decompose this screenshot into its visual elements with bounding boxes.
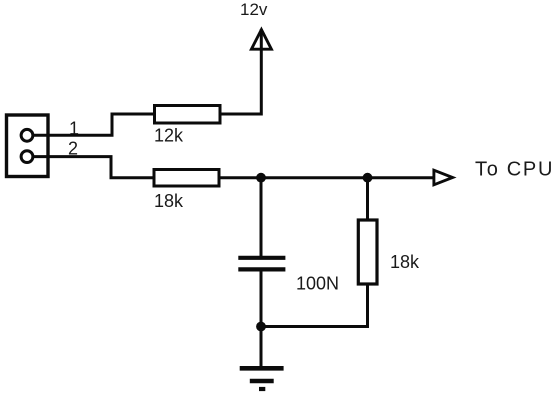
node junction at ground net <box>256 322 266 332</box>
connector J1 body <box>7 115 49 177</box>
ground symbol <box>240 368 284 389</box>
resistor R3 18k body <box>358 220 377 284</box>
svg-text:100N: 100N <box>296 274 339 294</box>
output arrow To CPU <box>434 170 453 185</box>
wire R1 right lead to 12v rail <box>220 29 261 114</box>
wire R2 right lead to output arrow <box>219 176 434 179</box>
wire junction to R3 top lead <box>366 178 369 220</box>
wire ground node to ground symbol <box>260 327 263 367</box>
connector pin 1 circle <box>21 129 33 141</box>
wire junction to C1 top plate <box>260 178 263 256</box>
svg-text:18k: 18k <box>154 191 184 211</box>
wire pin2 to R2 left lead <box>33 157 154 178</box>
svg-text:To CPU: To CPU <box>475 159 552 181</box>
resistor R2 18k body <box>154 170 219 187</box>
node junction at R3 top <box>363 173 373 183</box>
wire C1 bottom plate to ground node <box>260 272 263 327</box>
svg-text:12k: 12k <box>154 126 184 146</box>
resistor R1 12k body <box>155 106 221 124</box>
capacitor C1 bottom plate <box>238 267 285 271</box>
wire pin1 to R1 left lead <box>33 114 155 135</box>
svg-text:18k: 18k <box>390 252 420 272</box>
capacitor C1 top plate <box>238 256 285 260</box>
node junction at C1 top <box>256 173 266 183</box>
wire R3 bottom lead to ground node <box>261 284 368 327</box>
connector pin 2 circle <box>21 151 33 163</box>
power symbol 12v arrow <box>251 30 271 50</box>
svg-text:12v: 12v <box>240 0 268 19</box>
